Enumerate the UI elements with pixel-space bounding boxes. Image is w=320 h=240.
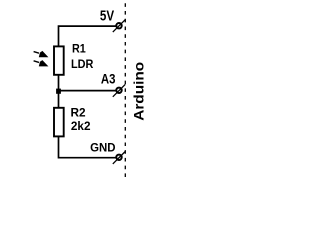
svg-text:R2: R2	[71, 106, 86, 120]
svg-text:Arduino: Arduino	[130, 62, 146, 121]
svg-text:A3: A3	[101, 71, 116, 87]
svg-text:LDR: LDR	[71, 58, 94, 71]
svg-text:5V: 5V	[100, 8, 115, 25]
svg-text:R1: R1	[72, 42, 86, 55]
svg-text:GND: GND	[90, 141, 115, 155]
svg-text:2k2: 2k2	[71, 119, 91, 133]
